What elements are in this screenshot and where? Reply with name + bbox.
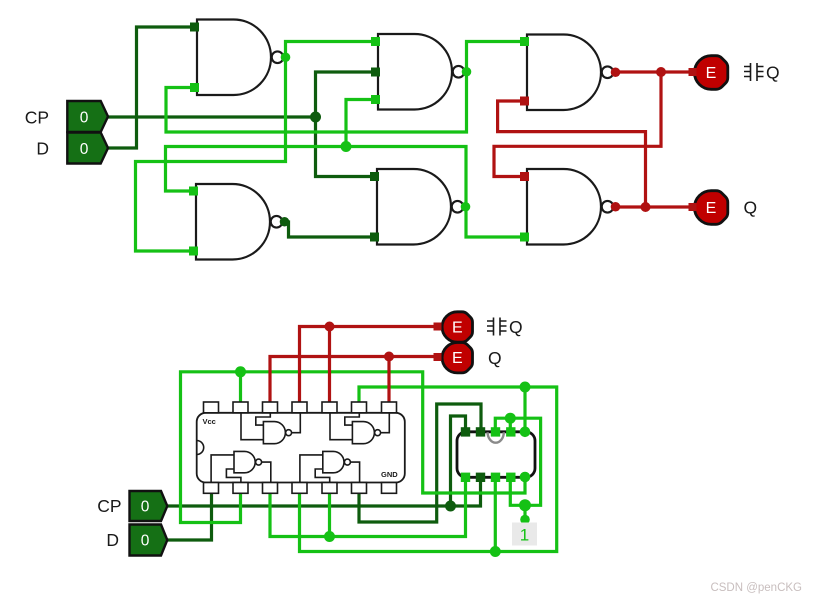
wire net U5.out: trunk to U4 top input [166, 147, 467, 208]
internal gate G3 output wire (pin 10) [262, 462, 271, 482]
svg-text:0: 0 [141, 533, 150, 550]
input box D (top) [67, 133, 108, 164]
wire net CP (top): branch up to U2 middle input [316, 72, 374, 117]
wire net U4.out to U5 bottom input [283, 222, 373, 237]
internal gate G4 input wire 1 [300, 455, 323, 483]
junction dot CP net (bottom) [445, 501, 456, 512]
pin U5 input B [370, 233, 379, 242]
nand gate U2 (top-middle, 3-input) [378, 34, 452, 110]
label notQ (bottom) [487, 318, 507, 336]
wire net T6 (bottom): stub to U8 top-right pin [523, 387, 526, 432]
internal NAND gate G2 [352, 422, 374, 444]
pin U3 input B [520, 97, 529, 106]
output box E Q (top) [694, 191, 727, 225]
pin U5 output dot [461, 202, 471, 212]
svg-text:0: 0 [80, 141, 89, 158]
chip U7 top pin 13 [233, 402, 248, 413]
IC chip U8 (dual NAND, small DIP) [457, 432, 535, 478]
chip U8 notch [488, 432, 504, 442]
wire net Q (top): branch to U3 bottom input [498, 101, 646, 207]
IC chip U7 (7400 quad NAND, 14-pin DIP) [197, 413, 405, 483]
internal NAND gate G4 [323, 451, 344, 472]
svg-text:GND: GND [381, 470, 398, 479]
chip U7 top pin 12 [263, 402, 278, 413]
wire net Q (bottom): E box to U7 pins T3,T7 [270, 357, 437, 403]
pin U2 input B [371, 68, 380, 77]
internal gate G2 input wire 1 [330, 413, 352, 440]
svg-text:1: 1 [520, 526, 529, 545]
chip U8 bottom corner pin dot [520, 472, 531, 483]
svg-text:Q: Q [488, 348, 502, 368]
wire net CP (bottom): branch up to chip U8 top pin A [451, 416, 466, 506]
wire net B3-B5 (bottom): stub to U7 pin B5 [328, 493, 331, 537]
pin U4 input A [189, 187, 198, 196]
constant 1 box (bottom) [512, 523, 537, 546]
junction dot notQ net (bottom) [325, 322, 335, 332]
chip U7 bottom pin 3 [263, 483, 278, 494]
chip U8 top pin 8 [461, 427, 470, 436]
internal gate G4 input wire 2 [315, 469, 330, 483]
internal gate G4 output wire (pin 13) [351, 462, 360, 482]
junction dot T6 net above U8 [520, 382, 531, 393]
wire net Q (top): U6.out to E output box [614, 205, 693, 208]
chip U7 bottom pin 5 [322, 483, 337, 494]
wire net constant-1 (bottom): stub to 1-box [523, 505, 526, 520]
pin U4 input B [189, 247, 198, 256]
chip U7 top pin 10 [322, 402, 337, 413]
pin U2 input A [371, 37, 380, 46]
pin U1 input A [190, 23, 199, 32]
svg-text:Q: Q [766, 63, 780, 83]
junction dot T6 net bottom [490, 546, 501, 557]
chip U7 bottom pin 7 [382, 483, 397, 494]
wire net D (top): D input to U1 top input [108, 27, 193, 148]
internal gate G3 input wire 2 [226, 469, 241, 483]
junction dot at 1-box pin [520, 515, 530, 525]
nand gate U3 (top-right) [527, 35, 601, 111]
svg-text:D: D [106, 530, 119, 550]
nand gate U4 (bottom-left) [196, 184, 270, 260]
chip U8 top pin 7 [476, 427, 485, 436]
internal gate G3 input wire 1 [211, 455, 234, 483]
junction dot constant-1 net at U8 top pin D [505, 413, 516, 424]
internal gate G2 output wire (pin 7) [381, 413, 390, 433]
wire net CP (top): CP input trunk [108, 115, 316, 118]
chip U8 bottom pin 1 [461, 473, 470, 482]
label notQ (top) [744, 63, 764, 81]
wire net U7 pin B6 to chip U8 top pin B [359, 404, 481, 522]
internal NAND gate G3 [234, 451, 255, 472]
junction dot constant-1 net [519, 499, 531, 511]
wire net notQ (top): branch to U6 top input [494, 72, 661, 177]
chip U8 top pin 5 [506, 427, 515, 436]
chip U8 bottom pin 3 [491, 473, 500, 482]
junction dot U5.out net (top) [341, 141, 352, 152]
junction dot Q net (bottom) [384, 352, 394, 362]
input box CP (bottom) [130, 491, 168, 521]
internal gate G2 input wire 2 [345, 413, 360, 425]
input box CP (top) [67, 101, 108, 132]
chip U8 bottom pin 4 [506, 473, 515, 482]
pin U6 input A [520, 172, 529, 181]
chip U7 top pin 11 [292, 402, 307, 413]
pin U3 output dot [611, 67, 621, 77]
chip U7 top pin 8 [382, 402, 397, 413]
internal gate G1 input wire 2 [256, 413, 270, 425]
pin U1 input B [190, 83, 199, 92]
svg-text:0: 0 [80, 110, 89, 127]
input box D (bottom) [130, 525, 168, 556]
wire net notQ (bottom): E box to U7 pins T4,T5 [300, 327, 438, 403]
svg-text:E: E [452, 320, 463, 337]
wire net T6 (bottom): U7 pin T6 to U8 top-right pin and U7 pin B4, U8 bottom pin C [300, 387, 557, 552]
internal NAND gate G1 [263, 422, 285, 444]
junction dot B3-B5 net [324, 531, 335, 542]
svg-text:0: 0 [141, 499, 150, 516]
junction dot CP net (top) [310, 112, 321, 123]
wire net Q (bottom): stub to U7 pin T7 [387, 357, 390, 403]
junction dot B2 net (bottom) [235, 366, 246, 377]
chip U7 bottom pin 6 [352, 483, 367, 494]
chip U7 top pin 14 [204, 402, 219, 413]
pin U2 output dot [462, 67, 472, 77]
internal gate G1 output wire (pin 4) [292, 413, 301, 433]
wire net B2 (bottom): chip U7 pins T2/B2 to chip U8 bottom-right pin [181, 372, 526, 523]
wire net B2 (bottom): stub to U7 pin T2 [239, 372, 242, 402]
pin U2 input C [371, 95, 380, 104]
chip U8 bottom pin 2 [476, 473, 485, 482]
chip U8 top corner pin dot [520, 427, 531, 438]
chip U7 bottom pin 4 [292, 483, 307, 494]
svg-text:Q: Q [509, 317, 523, 337]
wire net T6 (bottom): stub to U8 bottom pin C [494, 477, 497, 551]
svg-text:Q: Q [744, 198, 758, 218]
pin U1 output dot [281, 52, 291, 62]
svg-text:E: E [706, 65, 717, 82]
wire net B3-B5 (bottom): U7 pins B3,B5 to U8 bottom pin A [270, 477, 466, 536]
chip U7 notch [197, 441, 204, 455]
wire net notQ (top): U3.out to E output box [614, 70, 693, 73]
pin U4 output dot [280, 217, 290, 227]
svg-text:CSDN @penCKG: CSDN @penCKG [710, 582, 802, 594]
nand gate U1 (top-left) [197, 20, 271, 96]
chip U7 bottom pin 1 [204, 483, 219, 494]
wire net notQ (bottom): stub to U7 pin T5 [328, 327, 331, 403]
junction dot notQ net (top) [656, 67, 666, 77]
output box E notQ (bottom) [442, 312, 472, 342]
svg-text:Vcc: Vcc [203, 417, 216, 426]
wire net constant-1 (bottom): U8 bottom pin D to 1-box trunk [495, 418, 510, 432]
wire net CP (bottom): CP input to chip U8 pins [167, 477, 480, 506]
pin U5 input A [370, 172, 379, 181]
wire net D (bottom): D input to chip U7 pin B1 [167, 493, 211, 540]
svg-text:D: D [36, 139, 49, 159]
pin U3 input A [520, 37, 529, 46]
svg-text:E: E [452, 350, 463, 367]
wire net constant-1 (bottom): right loop [510, 418, 540, 505]
chip U7 top pin 9 [352, 402, 367, 413]
nand gate U6 (bottom-right) [527, 169, 601, 245]
junction dot Q net (top) [641, 202, 651, 212]
svg-text:E: E [706, 200, 717, 217]
chip U7 bottom pin 2 [233, 483, 248, 494]
pin U6 input B [520, 233, 529, 242]
nand gate U5 (bottom-middle) [377, 169, 451, 245]
chip U8 top pin 6 [491, 427, 500, 436]
output box E Q (bottom) [442, 343, 472, 373]
svg-text:CP: CP [97, 496, 121, 516]
wire net U1.out: to U2 top input and U4 bottom input [136, 42, 374, 252]
internal gate G1 input wire 1 [241, 413, 263, 440]
wire net CP (top): branch down to U5 top input [316, 117, 373, 177]
wire net U2.out: to U3 top input and U1 bottom input [166, 42, 523, 133]
wire net U5.out: branch to U6 bottom input [466, 207, 523, 237]
svg-text:CP: CP [25, 108, 49, 128]
output box E notQ (top) [694, 56, 727, 90]
wire net U5.out: branch to U2 bottom input [346, 100, 374, 147]
pin U6 output dot [611, 202, 621, 212]
